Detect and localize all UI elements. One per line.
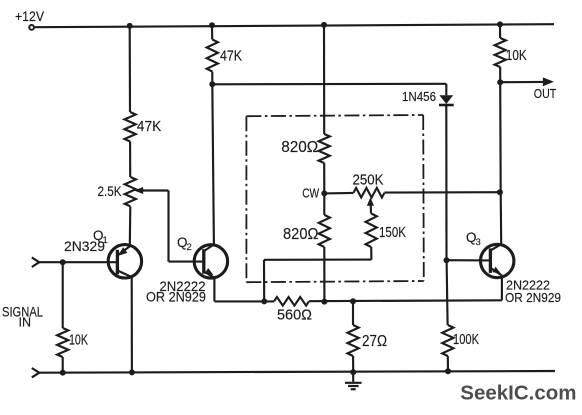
svg-text:100K: 100K [453,332,479,348]
svg-text:2N329: 2N329 [64,238,105,254]
svg-text:OR 2N929: OR 2N929 [505,290,561,305]
svg-text:Q3: Q3 [466,230,481,248]
svg-text:10K: 10K [69,333,88,349]
svg-text:2.5K: 2.5K [98,184,122,199]
svg-text:SeekIC.com: SeekIC.com [460,382,576,405]
svg-text:Q2: Q2 [177,235,192,253]
svg-text:OUT: OUT [534,86,557,101]
svg-text:47K: 47K [220,48,242,65]
svg-text:560Ω: 560Ω [277,307,312,324]
svg-text:820Ω: 820Ω [283,226,319,243]
svg-text:OR 2N929: OR 2N929 [146,289,206,304]
svg-text:250K: 250K [353,172,384,188]
svg-text:27Ω: 27Ω [362,333,387,350]
svg-text:CW: CW [302,186,319,200]
svg-text:IN: IN [19,315,32,330]
svg-text:820Ω: 820Ω [281,139,318,156]
svg-text:150K: 150K [379,225,406,241]
svg-text:10K: 10K [506,48,527,64]
svg-text:47K: 47K [137,118,162,135]
svg-text:+12V: +12V [15,9,44,24]
svg-text:1N456: 1N456 [402,89,436,104]
